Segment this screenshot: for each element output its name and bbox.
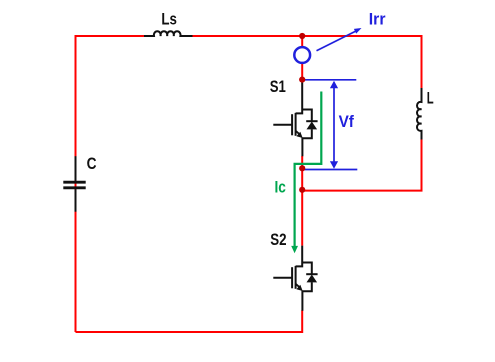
wire: right branch lower + horizontal to node: [302, 140, 421, 191]
svg-text:Vf: Vf: [339, 112, 355, 131]
svg-text:S1: S1: [270, 77, 286, 96]
transistor S1 (MOSFET with body diode): [273, 80, 317, 157]
node junction dot (S1 source / Vf ref): [299, 165, 305, 171]
svg-text:S2: S2: [270, 230, 286, 249]
svg-text:Ls: Ls: [161, 10, 177, 29]
svg-text:Irr: Irr: [369, 9, 386, 28]
arrow Vf (double headed): [330, 81, 338, 169]
wire: center column top (above probe circle): [301, 36, 303, 47]
arrow Irr: [317, 28, 362, 51]
wire: center column probe to S1 drain node: [301, 63, 303, 80]
capacitor C: [63, 156, 85, 212]
measurement line top (S1 drain reference): [302, 79, 356, 81]
node junction dot (load branch): [299, 187, 305, 193]
wire: bottom rail: [76, 310, 303, 332]
wire: Ic current path (green): [291, 92, 321, 254]
inductor Ls: [144, 31, 193, 36]
node junction dot (S1 drain): [299, 77, 305, 83]
measurement line bottom (S1 source reference): [304, 169, 358, 171]
current probe circle: [294, 47, 310, 63]
svg-text:L: L: [427, 89, 434, 108]
svg-text:C: C: [87, 154, 97, 173]
transistor S2 (MOSFET with body diode): [273, 246, 317, 311]
node junction dot (top rail): [299, 33, 305, 39]
inductor L: [417, 88, 422, 140]
wire: top rail right segment: [193, 36, 422, 88]
wire: top rail left segment: [76, 36, 145, 332]
wire: center column S1 source to S2 drain: [301, 156, 303, 246]
svg-text:Ic: Ic: [275, 177, 286, 196]
